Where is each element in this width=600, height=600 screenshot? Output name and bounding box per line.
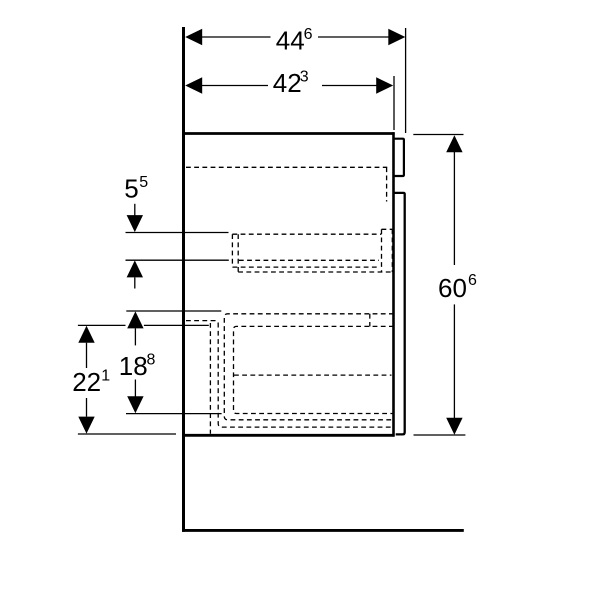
dimension 22.1 lower extension line — [78, 433, 176, 435]
dimension 5.5 lower tail — [134, 277, 136, 288]
dimension 42.3 extension line — [393, 76, 395, 130]
dimension 42.3 right arrowhead — [376, 77, 393, 93]
floor line — [182, 529, 464, 532]
dimension 5.5 up arrowhead — [127, 260, 143, 277]
svg-text:44: 44 — [276, 26, 305, 56]
upper drawer hidden box — [232, 234, 392, 272]
dimension 18.8 lower extension line — [126, 413, 222, 415]
hidden back drop line — [386, 167, 388, 201]
svg-text:5: 5 — [124, 174, 138, 204]
cabinet bottom edge — [185, 434, 394, 437]
dimension 44.6 extension line — [405, 28, 407, 133]
dimension 44.6 left arrowhead — [185, 29, 202, 45]
cabinet front edge — [392, 132, 395, 436]
svg-text:22: 22 — [72, 367, 101, 397]
hidden top interior line — [186, 166, 387, 168]
dimension 22.1 down arrowhead — [78, 417, 94, 434]
dimension 18.8 upper tail — [134, 328, 136, 345]
svg-text:18: 18 — [119, 351, 148, 381]
dimension 5.5 down arrowhead — [127, 215, 143, 232]
lower front panel profile — [394, 193, 405, 435]
dimension 44.6 right arrowhead — [388, 29, 405, 45]
dimension 5.5 lower extension line — [126, 259, 229, 261]
dimension 18.8 lower tail — [134, 380, 136, 398]
dimension 60.6 top extension line — [413, 134, 463, 136]
svg-text:1: 1 — [101, 367, 110, 384]
dimension 5.5 upper extension line — [126, 232, 229, 234]
dimension 44.6 line — [202, 36, 389, 38]
dimension 60.6 bottom extension line — [414, 434, 466, 436]
dimension 18.8 down arrowhead — [127, 396, 143, 413]
dimension 22.1 lower tail — [86, 398, 88, 417]
dimension 22.1 upper extension line — [78, 324, 209, 326]
wall line — [182, 27, 185, 532]
svg-text:3: 3 — [300, 69, 309, 86]
svg-text:8: 8 — [147, 351, 156, 368]
cabinet top edge — [185, 132, 395, 135]
svg-text:60: 60 — [438, 273, 467, 303]
dimension 18.8 upper extension line — [126, 310, 221, 312]
upper drawer front bracket — [382, 229, 393, 272]
svg-text:6: 6 — [304, 26, 313, 43]
dimension 22.1 upper tail — [86, 343, 88, 368]
lower drawer hidden box — [186, 314, 394, 434]
dimension 5.5 upper tail — [134, 204, 136, 216]
upper front tab profile — [394, 139, 404, 176]
dimension 22.1 up arrowhead — [78, 326, 94, 343]
svg-text:42: 42 — [273, 68, 302, 98]
svg-text:6: 6 — [468, 272, 477, 289]
svg-text:5: 5 — [139, 174, 148, 191]
dimension 18.8 up arrowhead — [127, 311, 143, 328]
dimension 42.3 line — [202, 85, 377, 87]
dimension 42.3 left arrowhead — [185, 77, 202, 93]
dimension 60.6 bottom arrowhead — [446, 418, 462, 435]
dimension 60.6 top arrowhead — [446, 135, 462, 152]
dimension 60.6 line — [453, 152, 455, 418]
